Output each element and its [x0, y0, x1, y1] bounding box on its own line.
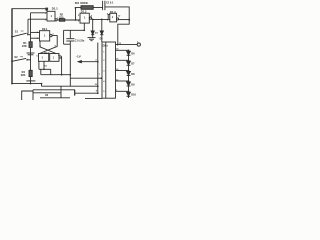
svg-text:1: 1	[45, 13, 46, 15]
ladder stub 16	[116, 70, 129, 72]
wire D1.3 out	[119, 19, 130, 21]
svg-text:C1 0.33n: C1 0.33n	[75, 41, 85, 43]
box E6	[33, 92, 61, 94]
wire D1.1 input 1	[31, 12, 48, 14]
svg-text:D1.1: D1.1	[52, 7, 58, 11]
wire C2 to corner	[105, 7, 129, 20]
ground T bar	[26, 80, 35, 82]
wire v33	[32, 90, 34, 100]
wire D1.2 out to D1.3	[92, 18, 111, 20]
wire row30.3	[64, 29, 85, 31]
diode D3	[92, 19, 94, 31]
wire top frame horizontal	[12, 8, 47, 10]
svg-text:S2: S2	[14, 55, 18, 59]
capacitor C3	[27, 52, 35, 54]
wire D2.1 inputs	[31, 31, 40, 33]
gate D1.3	[110, 13, 117, 22]
wire D1.2 bottom down	[83, 23, 85, 30]
wire v41.5	[41, 84, 43, 87]
svg-text:6: 6	[37, 56, 38, 58]
diode D10	[127, 92, 131, 96]
wire RX row	[76, 7, 103, 9]
gate D2.1	[40, 31, 50, 41]
svg-text:5: 5	[103, 91, 104, 93]
svg-text:6: 6	[78, 20, 79, 22]
svg-text:2: 2	[37, 38, 38, 40]
gate D1.2	[80, 13, 89, 23]
IC D2	[102, 42, 116, 98]
svg-text:1: 1	[37, 32, 38, 34]
svg-text:RX 680K: RX 680K	[75, 1, 89, 5]
svg-text:2: 2	[45, 20, 46, 22]
wire latch cross	[39, 41, 41, 47]
diode D8	[127, 71, 131, 75]
svg-text:D2.1: D2.1	[42, 27, 48, 31]
gate D2.2	[39, 54, 49, 62]
wire stub into D1.1	[46, 9, 48, 11]
wire D2.1 output	[52, 36, 57, 47]
wire D1.1 input 2	[28, 18, 47, 20]
terminal a	[137, 43, 140, 46]
capacitor C1	[69, 30, 71, 38]
wire row78.2	[70, 77, 102, 79]
wire h69.3	[39, 68, 51, 70]
wire v97.8	[97, 43, 99, 94]
diode D4	[101, 19, 103, 31]
svg-text:22K: 22K	[21, 73, 26, 77]
switch S1	[11, 36, 13, 38]
svg-text:3: 3	[57, 18, 58, 20]
gate D1.1	[47, 11, 55, 21]
svg-text:3: 3	[53, 34, 54, 36]
resistor RX 680K	[81, 6, 93, 10]
svg-text:8: 8	[55, 46, 56, 48]
wire RX vertical	[75, 8, 77, 20]
svg-text:3: 3	[103, 70, 104, 72]
wire bottom right hook	[85, 97, 102, 99]
wire input2 vertical to S1	[27, 19, 29, 34]
wire v50.7	[50, 69, 52, 74]
resistor R1 22K	[29, 42, 32, 48]
svg-text:4: 4	[103, 80, 104, 83]
wire v101.8 to IC	[101, 35, 103, 42]
svg-text:D2.2: D2.2	[44, 52, 50, 55]
wire row89.8	[33, 89, 75, 91]
bus column	[30, 13, 32, 42]
node D4 tap	[101, 19, 103, 21]
wire D2.2 bottoms	[38, 61, 40, 69]
node D3 tap	[92, 19, 94, 21]
wire feedback jog	[118, 20, 129, 45]
wire D1.1 output	[57, 19, 80, 21]
ladder stub 14	[116, 49, 129, 51]
switch S2	[11, 60, 13, 62]
wire row74.7	[41, 74, 71, 76]
ladder stub 1	[116, 90, 129, 92]
wire D1.3 upper input	[108, 14, 110, 19]
diode D6	[127, 51, 131, 55]
svg-text:S1: S1	[15, 29, 19, 33]
svg-text:2: 2	[103, 60, 104, 62]
wire h44.2	[64, 43, 71, 45]
resistor R4 22K	[29, 70, 32, 76]
node pin1 blob	[45, 8, 48, 11]
wire box bottom	[40, 97, 70, 99]
wire D2.3 out down	[60, 57, 62, 75]
svg-text:-1V: -1V	[76, 55, 81, 59]
node RX junction	[75, 7, 77, 9]
ladder stub 12	[116, 80, 129, 82]
svg-text:9: 9	[58, 55, 59, 57]
wire row83.6	[12, 83, 42, 85]
svg-text:5: 5	[40, 46, 41, 48]
ground	[88, 37, 96, 39]
battery plate	[74, 90, 76, 96]
svg-text:D1.3: D1.3	[110, 10, 116, 14]
wire row86.2	[42, 85, 98, 87]
resistor R2 220	[59, 19, 64, 22]
ladder chain	[128, 50, 130, 98]
wire v63.6	[63, 30, 65, 44]
capacitor C2	[102, 1, 104, 10]
wire pin13 to terminal	[116, 44, 138, 46]
gate D2.3	[50, 54, 59, 62]
wire row93.2	[75, 92, 98, 94]
svg-text:220: 220	[59, 15, 64, 19]
ladder stub 15	[116, 59, 129, 61]
box bottom-left	[22, 91, 33, 100]
wire left frame vertical	[11, 8, 13, 83]
svg-text:22K: 22K	[22, 44, 27, 48]
wire v70.3 long	[69, 41, 71, 86]
diode D7	[127, 61, 131, 65]
svg-text:D1.2: D1.2	[81, 10, 87, 14]
svg-text:D10: D10	[131, 94, 136, 97]
diode D9	[127, 82, 131, 86]
svg-text:C2 0.1: C2 0.1	[106, 1, 114, 4]
svg-text:5: 5	[78, 15, 79, 17]
svg-text:1: 1	[103, 52, 104, 54]
